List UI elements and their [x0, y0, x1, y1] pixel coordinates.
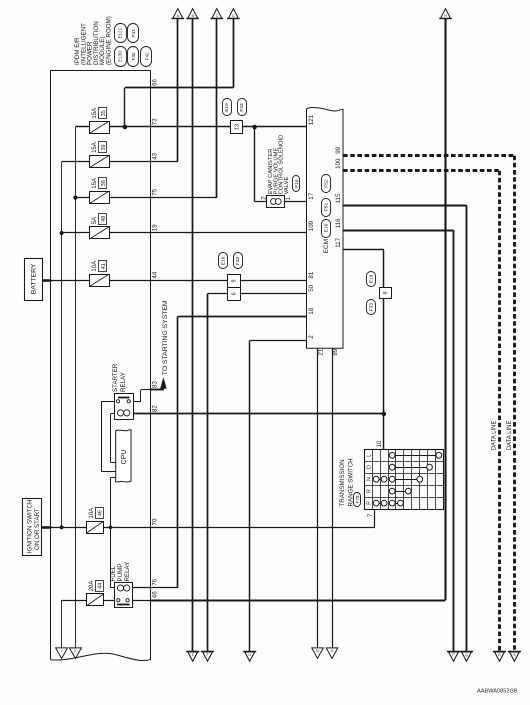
- svg-text:46: 46: [151, 591, 158, 598]
- connector F16: [293, 176, 300, 192]
- wire bus to fuse 48 / pin 19 to ECM pin 109: [62, 232, 307, 234]
- svg-text:F33: F33: [235, 256, 241, 265]
- svg-text:9: 9: [232, 279, 238, 282]
- ignition bus vertical: [61, 162, 63, 528]
- bottom arrow F: [201, 652, 214, 662]
- svg-text:F33: F33: [239, 103, 245, 112]
- top arrow D: [227, 9, 240, 19]
- svg-text:18: 18: [308, 307, 315, 314]
- bottom arrow Q: [460, 652, 473, 662]
- IPDM pin 83: [151, 381, 158, 388]
- TRS contacts row R: [389, 488, 411, 494]
- svg-text:P: P: [366, 501, 372, 505]
- svg-text:E19: E19: [220, 256, 226, 265]
- svg-text:115: 115: [335, 193, 342, 203]
- TRS contacts row L: [389, 452, 441, 458]
- svg-text:82: 82: [151, 405, 158, 412]
- svg-text:73: 73: [151, 118, 158, 125]
- transmission range switch grid: [365, 449, 444, 509]
- wire ECM pin 100 data line (dashed): [343, 171, 500, 652]
- top arrow B: [186, 9, 199, 19]
- wire IGN bus to fuse 39 / pin 43 riser to top arrow A: [62, 18, 178, 161]
- svg-text:100: 100: [335, 158, 342, 169]
- IPDM E/R box outline: [50, 71, 151, 661]
- svg-text:F52: F52: [323, 179, 329, 188]
- wire ECM pin 21 riser to bottom open arrow: [317, 348, 319, 648]
- junction dot fuse 46 wire / CPU riser: [109, 526, 113, 530]
- ECM pin 117: [335, 237, 342, 247]
- svg-text:70: 70: [151, 518, 158, 525]
- svg-text:N: N: [366, 477, 372, 481]
- bottom open arrow ECM 21: [312, 648, 324, 659]
- arrow to starting system: [160, 377, 167, 389]
- svg-text:48: 48: [101, 216, 107, 222]
- svg-text:66: 66: [151, 78, 158, 85]
- label TO STARTING SYSTEM: [162, 300, 169, 375]
- svg-text:E16: E16: [323, 223, 329, 232]
- svg-text:41: 41: [101, 263, 107, 269]
- svg-text:D: D: [366, 465, 372, 469]
- svg-text:DATA LINE: DATA LINE: [507, 421, 513, 451]
- IPDM pin 43: [151, 152, 158, 159]
- svg-text:109: 109: [308, 220, 315, 231]
- svg-text:PUMP: PUMP: [117, 564, 124, 582]
- svg-text:RELAY: RELAY: [120, 372, 127, 392]
- connector F35: [128, 47, 139, 67]
- svg-text:E19: E19: [224, 103, 230, 112]
- bottom arrow data line right: [508, 652, 521, 662]
- svg-text:89: 89: [332, 348, 339, 355]
- IPDM pin 19: [151, 224, 158, 231]
- connector F41: [128, 24, 139, 43]
- ECM pin 109: [308, 220, 315, 231]
- svg-text:FUEL: FUEL: [110, 565, 117, 581]
- ECM pin 89: [332, 348, 339, 355]
- TRS contacts row D: [389, 464, 432, 470]
- svg-text:121: 121: [308, 114, 315, 125]
- connector F33 at joint 9/6: [234, 253, 243, 269]
- bottom open arrow ECM 89: [326, 648, 338, 659]
- TRS contacts row P: [373, 500, 403, 506]
- connector F33 at joint 8: [367, 300, 376, 315]
- IPDM pin 66: [151, 78, 158, 85]
- svg-text:50: 50: [308, 284, 315, 291]
- svg-text:81: 81: [308, 271, 315, 278]
- connector F33 at joint 13: [238, 99, 247, 116]
- EVAP canister purge volume control solenoid valve: [267, 196, 285, 208]
- EVAP valve label: [268, 135, 290, 195]
- svg-text:21: 21: [318, 348, 325, 355]
- bottom arrow P: [447, 652, 460, 662]
- svg-text:E19: E19: [369, 274, 375, 283]
- TRS label: [339, 458, 354, 506]
- svg-text:R: R: [366, 489, 372, 493]
- top arrow H: [439, 9, 452, 19]
- svg-text:STARTER: STARTER: [112, 363, 119, 392]
- svg-text:116: 116: [335, 218, 342, 228]
- wire ECM pin 89 riser to bottom open arrow: [332, 348, 334, 648]
- ignition bus stub to bottom open arrow: [61, 600, 63, 648]
- connector E19 at joint 9/6: [219, 253, 228, 269]
- svg-text:76: 76: [151, 578, 158, 585]
- svg-text:L: L: [366, 454, 372, 457]
- svg-text:2: 2: [308, 335, 315, 339]
- svg-text:39: 39: [101, 145, 107, 151]
- bottom arrow G: [243, 652, 256, 662]
- svg-text:F: F: [206, 653, 208, 657]
- IPDM pin 44: [151, 271, 158, 278]
- wire fuel pump relay coil to pin 76: [125, 587, 178, 589]
- svg-text:6: 6: [232, 292, 238, 295]
- wire joint cell 6 to ECM pin 50: [208, 293, 307, 295]
- svg-text:83: 83: [151, 381, 158, 388]
- IPDM E/R title: [74, 16, 113, 65]
- svg-text:F33: F33: [369, 303, 375, 312]
- wire ECM pin 2 riser to bottom arrow G: [250, 341, 307, 652]
- svg-text:44: 44: [151, 271, 158, 278]
- label DATA LINE (right): [507, 421, 513, 451]
- svg-text:ON OR START: ON OR START: [34, 508, 41, 550]
- svg-text:AABWA0852GB: AABWA0852GB: [477, 689, 518, 695]
- svg-text:19: 19: [151, 224, 158, 231]
- svg-text:44: 44: [98, 583, 104, 589]
- ECM pin 100: [335, 158, 342, 169]
- connector E121: [115, 24, 127, 43]
- junction dot pin 82 wire / ECM 117 riser: [382, 412, 387, 417]
- junction dot ignition wire / bus: [60, 525, 64, 529]
- junction dot ECM121 wire / EVAP riser: [252, 125, 257, 130]
- starter relay: [115, 394, 134, 420]
- figure code AABWA0852GB: [477, 689, 518, 695]
- connector E19 at joint 8: [367, 272, 376, 287]
- svg-text:Q: Q: [465, 653, 468, 657]
- wire starter relay coil to CPU: [111, 414, 118, 463]
- svg-text:15A: 15A: [92, 108, 98, 119]
- TRS pin 10: [377, 440, 383, 447]
- wire ECM pin 117 to joint 8 riser to TRS pin 10: [343, 250, 384, 450]
- CPU label: [121, 450, 128, 465]
- wire ignition switch to fuse 46 / pin 70 / TRS pin 7: [51, 527, 375, 529]
- ECM pin 21: [318, 348, 325, 355]
- wire battery feed (thick): [42, 279, 51, 282]
- TRS contacts row N: [373, 476, 422, 482]
- TRS row labels P R N D L: [366, 454, 372, 505]
- fuse 10A 41: [89, 261, 109, 287]
- IPDM pin 46: [151, 591, 158, 598]
- wire cell 6 riser down to bottom arrow F: [207, 294, 209, 652]
- label DATA LINE (left): [491, 421, 497, 451]
- wire battery bus to fuse 35 / pin 73 / joint 13 / ECM pin 121: [75, 126, 306, 128]
- connector F78: [354, 493, 361, 507]
- wire ECM pin 18 to fuel pump relay coil riser: [178, 317, 307, 588]
- svg-text:ECM: ECM: [323, 239, 330, 253]
- joint connector 9 and 6: [227, 275, 240, 301]
- svg-text:75: 75: [151, 188, 158, 195]
- svg-text:38: 38: [101, 180, 107, 186]
- top arrow C: [211, 9, 224, 19]
- svg-text:VALVE: VALVE: [284, 176, 290, 194]
- svg-text:15A: 15A: [92, 178, 98, 189]
- svg-text:35: 35: [101, 110, 107, 116]
- svg-text:J: J: [61, 649, 63, 653]
- svg-text:CPU: CPU: [121, 450, 128, 465]
- svg-text:13: 13: [234, 124, 240, 130]
- IPDM pin 73: [151, 118, 158, 125]
- bottom open arrow under IPDM left: [56, 648, 68, 659]
- ECM box outline: [307, 108, 344, 349]
- svg-text:117: 117: [335, 237, 342, 247]
- svg-text:17: 17: [308, 192, 315, 199]
- fuse 15A 35: [89, 108, 109, 134]
- bottom arrow data line left: [493, 652, 506, 662]
- svg-text:E130: E130: [117, 51, 122, 62]
- fuse 10A 46: [86, 508, 103, 534]
- wire starter relay switch to CPU: [101, 401, 118, 471]
- ECM pin 2: [308, 335, 315, 339]
- wire bus to fuse 38 / pin 75 riser to top arrow C: [75, 18, 216, 197]
- battery: [25, 259, 43, 301]
- ECM pin 81: [308, 271, 315, 278]
- wire battery to fuse 41 / pin 44 / joint 9 / ECM pin 81: [51, 280, 307, 282]
- junction dot fuse 35 wire / pin 66 riser: [123, 125, 128, 130]
- joint connector 8: [380, 288, 392, 299]
- fuse 15A 38: [89, 178, 109, 204]
- svg-text:5A: 5A: [92, 217, 98, 224]
- svg-text:10: 10: [377, 440, 383, 447]
- svg-text:TRANSMISSION: TRANSMISSION: [339, 459, 346, 506]
- ECM pin 18: [308, 307, 315, 314]
- svg-text:46: 46: [98, 510, 104, 516]
- svg-text:BATTERY: BATTERY: [31, 263, 38, 294]
- IPDM pin 82: [151, 405, 158, 412]
- svg-text:(ENGINE ROOM): (ENGINE ROOM): [106, 16, 113, 65]
- ECM pin 50: [308, 284, 315, 291]
- ignition switch box: [23, 499, 42, 556]
- IPDM pin 76: [151, 578, 158, 585]
- ECM pin 99: [335, 146, 342, 153]
- junction dot bus / fuse 38 wire: [73, 196, 77, 200]
- fuse 20A 44: [86, 581, 103, 607]
- wire CPU to fuel pump relay coil: [111, 478, 119, 588]
- wire fuse 44 to fuel pump relay contact: [104, 600, 118, 602]
- svg-text:99: 99: [335, 146, 342, 153]
- svg-text:10A: 10A: [89, 508, 95, 519]
- svg-text:15A: 15A: [92, 142, 98, 153]
- wire fuse 44 feed: [62, 600, 87, 602]
- wire pass-through top arrow B to bottom arrow E: [192, 18, 194, 651]
- svg-text:F16: F16: [294, 179, 300, 188]
- connector E130: [115, 47, 127, 67]
- svg-text:F51: F51: [323, 203, 329, 212]
- svg-text:DATA LINE: DATA LINE: [491, 421, 497, 451]
- wire fuse 35 junction to pin 66 to top arrow D: [125, 18, 234, 127]
- fuse 5A 48: [89, 214, 109, 240]
- ECM pin 17: [308, 192, 315, 199]
- svg-text:F42: F42: [144, 52, 149, 60]
- wire ignition feed (thick): [42, 526, 52, 529]
- wire fuel pump relay contact to pin 46 heavy to riser / top arrow H: [128, 18, 446, 600]
- connector F42: [141, 47, 152, 67]
- CPU box: [116, 430, 131, 483]
- svg-text:F35: F35: [131, 52, 136, 60]
- wire TRS pin 7 riser: [374, 509, 376, 527]
- fuse 15A 39: [89, 142, 109, 168]
- wire ECM pin 99 data line (dashed): [343, 156, 515, 652]
- ECM label and connectors E16 F51 F52: [321, 175, 331, 254]
- svg-text:20A: 20A: [89, 581, 95, 592]
- IPDM pin 75: [151, 188, 158, 195]
- svg-text:10A: 10A: [92, 261, 98, 272]
- junction dot bus / fuse 48 wire: [60, 231, 64, 235]
- svg-text:G: G: [248, 653, 251, 657]
- top arrow A: [172, 9, 185, 19]
- fuel pump relay: [115, 583, 133, 608]
- starter relay label: [112, 363, 127, 392]
- svg-text:RELAY: RELAY: [124, 562, 131, 582]
- svg-text:IGNITION SWITCH: IGNITION SWITCH: [27, 500, 34, 554]
- EVAP valve pin 2: [262, 196, 268, 200]
- bottom open arrow under IPDM right: [69, 648, 81, 659]
- svg-text:F78: F78: [355, 495, 360, 503]
- svg-text:,: ,: [321, 196, 327, 197]
- svg-text:O: O: [331, 649, 334, 653]
- ECM pin 121: [308, 114, 315, 125]
- fuel pump relay label: [110, 562, 131, 582]
- wire ECM pin 116 riser to bottom arrow P: [343, 230, 454, 651]
- ECM pin 116: [335, 218, 342, 228]
- svg-text:43: 43: [151, 152, 158, 159]
- IPDM pin 70: [151, 518, 158, 525]
- joint connector 13: [231, 121, 243, 134]
- EVAP valve pin 1: [286, 196, 292, 200]
- wire starter relay switch to pin 83 / TO STARTING SYSTEM: [129, 390, 164, 402]
- wire EVAP valve pin 2 riser from joint on ECM 121 wire: [255, 127, 307, 202]
- wire starter relay coil pin 82 to junction with ECM 117 riser: [125, 413, 384, 415]
- connector E19 at joint 13: [223, 99, 232, 116]
- svg-text:8: 8: [383, 292, 389, 295]
- wire ECM pin 115 riser to bottom arrow Q: [343, 205, 467, 651]
- ECM pin 115: [335, 193, 342, 203]
- TRS pin 7: [368, 513, 374, 517]
- svg-text:TO STARTING SYSTEM: TO STARTING SYSTEM: [162, 300, 169, 375]
- battery bus vertical: [75, 127, 77, 648]
- svg-text:E121: E121: [117, 27, 122, 38]
- bottom arrow E: [186, 652, 199, 662]
- svg-text:F41: F41: [131, 29, 136, 37]
